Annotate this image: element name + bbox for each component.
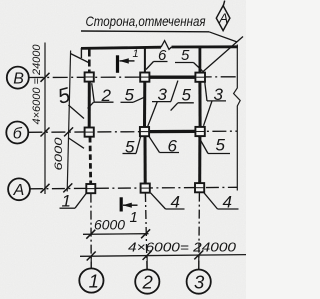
axis 1 vertical below A1 (dash-dot) <box>90 194 92 269</box>
column B3 <box>195 73 205 82</box>
beam stub above B1 (dashed) <box>88 50 91 73</box>
top beam break symbol <box>161 41 172 50</box>
beam Б2-Б3 <box>149 130 196 134</box>
leader branch to beam B1-Б1 <box>68 105 84 119</box>
grid circle 1 <box>79 268 103 292</box>
beam B2-B3 <box>149 76 195 79</box>
axis row A (dash-dot) <box>30 187 237 189</box>
svg-text:6000: 6000 <box>53 136 65 170</box>
svg-text:5: 5 <box>182 86 192 105</box>
svg-text:3: 3 <box>194 271 205 292</box>
column Б2 <box>140 127 149 136</box>
svg-text:Сторона,отмеченная: Сторона,отмеченная <box>86 14 207 29</box>
section mark 1 (bottom): arrow <box>123 204 138 206</box>
section mark 1 (top): bar <box>116 55 119 73</box>
svg-text:1: 1 <box>89 270 99 291</box>
column B2 <box>140 73 149 82</box>
column Б3 <box>195 127 204 136</box>
column Б1 <box>85 128 94 137</box>
axis 3 vertical below A3 (dash-dot) <box>198 193 201 270</box>
svg-text:4×6000= 24000: 4×6000= 24000 <box>128 240 237 255</box>
right break line with zigzag <box>234 45 241 191</box>
grid circle B <box>7 67 29 89</box>
svg-text:6000: 6000 <box>94 217 125 233</box>
tick at Б on inner line <box>64 127 73 136</box>
left inner extension line (6000 between A and Б) <box>67 51 70 192</box>
beam stub above B3 <box>198 48 201 73</box>
svg-text:4×6000 = 24000: 4×6000 = 24000 <box>31 44 43 125</box>
column A2 <box>141 184 150 193</box>
axis 2 vertical below A2 (dash-dot) <box>145 193 147 269</box>
top slab edge beam (left part) <box>81 47 161 48</box>
left overall dimension line (vertical, 24000) <box>44 43 46 195</box>
svg-text:А: А <box>218 11 228 26</box>
leader branch to upper stub <box>70 54 88 63</box>
paper background <box>0 0 246 299</box>
column B1 <box>85 72 94 81</box>
beam B2-Б2 <box>143 82 146 127</box>
beam stub above B2 <box>144 48 146 73</box>
section mark 1 (bottom): bar <box>120 197 123 211</box>
beam B1-Б1 <box>88 82 91 128</box>
grid circle 2 <box>135 270 159 294</box>
tick axis1 <box>87 252 96 261</box>
bottom overall dimension line 24000 <box>80 255 246 257</box>
tick axis2 <box>143 251 152 260</box>
column A1 <box>86 184 95 193</box>
svg-text:1: 1 <box>130 209 138 226</box>
mark diamond A <box>216 1 230 31</box>
tick at B <box>41 73 50 82</box>
beam B3-Б3 <box>198 82 201 127</box>
svg-text:2: 2 <box>142 271 154 292</box>
beam Б2-A2 <box>144 136 147 183</box>
axis row Б (dash-dot) <box>28 131 237 132</box>
tick at A on inner line <box>63 183 72 192</box>
connector axis3 to circle 3 <box>198 255 200 269</box>
grid circle A <box>8 178 30 200</box>
beam Б3-A3 <box>198 136 201 183</box>
bottom dimension line 6000 <box>83 233 149 236</box>
beam Б1-A1 (dashed hidden) <box>89 137 92 184</box>
grid circle Б <box>6 122 28 144</box>
tick at Б <box>41 128 50 137</box>
section mark 1 (top): arrow <box>120 60 135 62</box>
axis row B (dash-dot) <box>29 76 237 79</box>
top slab edge beam (right part) <box>172 45 239 48</box>
grid circle 3 <box>187 270 211 294</box>
svg-text:5: 5 <box>216 136 226 155</box>
column A3 <box>195 183 204 192</box>
underline leader diagonal <box>209 32 237 42</box>
tick at A <box>41 184 50 193</box>
connector axis1 to circle 1 <box>90 256 92 268</box>
svg-text:В: В <box>13 70 24 87</box>
tick axis3 <box>194 250 203 259</box>
svg-text:б: б <box>13 125 23 142</box>
svg-text:1: 1 <box>133 48 139 60</box>
leader branch to beam Б1-A1 <box>69 138 84 148</box>
top beam left end stub <box>80 48 82 58</box>
tick axis2 <box>141 229 150 238</box>
title underline <box>81 30 209 33</box>
connector axis2 to circle 2 <box>146 256 148 270</box>
tick axis1 <box>86 230 95 239</box>
svg-text:5: 5 <box>181 47 190 64</box>
leader from diamond to marked side <box>202 37 243 73</box>
svg-text:А: А <box>13 182 25 199</box>
